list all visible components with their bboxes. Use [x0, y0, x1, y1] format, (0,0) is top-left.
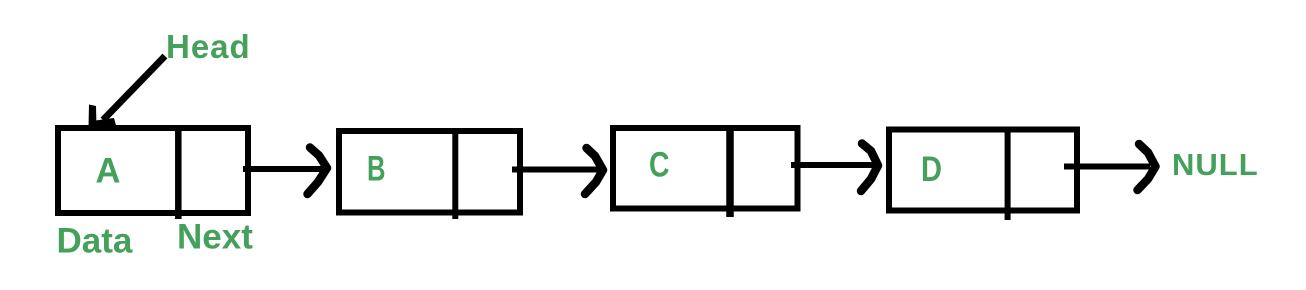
svg-text:Head: Head — [166, 28, 251, 65]
svg-text:C: C — [649, 146, 670, 185]
label Next — [177, 218, 253, 257]
node C box — [613, 127, 798, 217]
label Head — [166, 28, 251, 65]
label A — [96, 152, 121, 191]
svg-text:Next: Next — [177, 218, 253, 257]
label Data — [57, 222, 133, 261]
svg-text:D: D — [921, 150, 942, 189]
node D box — [889, 129, 1077, 221]
node A box — [58, 127, 248, 219]
head pointer arrow — [89, 56, 166, 128]
node B box — [339, 130, 520, 219]
svg-text:NULL: NULL — [1172, 147, 1259, 182]
arrow D to NULL — [1064, 144, 1156, 190]
svg-text:Data: Data — [57, 222, 133, 261]
arrow A to B — [243, 148, 327, 195]
svg-text:B: B — [367, 150, 386, 189]
arrow C to D — [791, 144, 878, 192]
label NULL — [1172, 147, 1259, 182]
label D — [921, 150, 942, 189]
arrow B to C — [512, 148, 603, 194]
label C — [649, 146, 670, 185]
label B — [367, 150, 386, 189]
svg-text:A: A — [96, 152, 121, 191]
